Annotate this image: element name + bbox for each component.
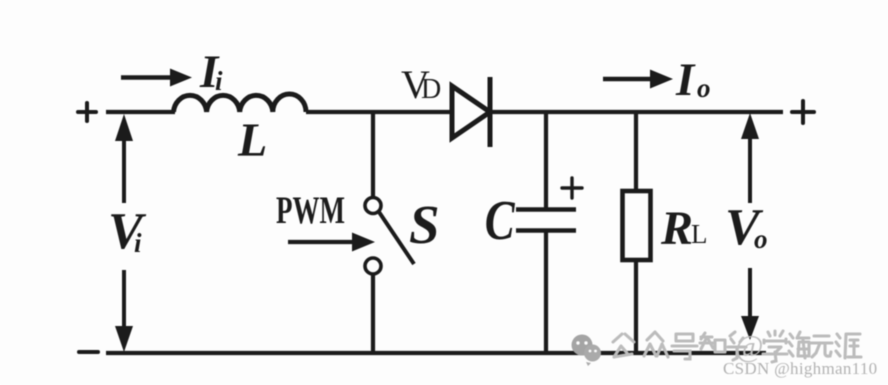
char ya [836, 334, 861, 358]
svg-text:D: D [421, 74, 441, 105]
svg-text:S: S [409, 194, 440, 255]
arrow Vo measurement double-headed [741, 113, 759, 340]
char hao [672, 334, 697, 359]
svg-text:I: I [675, 54, 696, 106]
capacitor C bottom plate [516, 228, 576, 233]
svg-text:o: o [754, 224, 768, 254]
svg-text:CSDN @highman110: CSDN @highman110 [723, 359, 877, 378]
char xue [763, 331, 787, 362]
wire top rail left segment [106, 110, 175, 114]
svg-text:R: R [660, 202, 693, 255]
switch S bottom contact [365, 258, 381, 274]
plus sign left input terminal [78, 103, 96, 121]
svg-text:PWM: PWM [276, 189, 345, 232]
arrow Io current [603, 70, 673, 89]
diode VD triangle [452, 86, 490, 138]
arrow PWM control [288, 233, 375, 252]
char hu [728, 332, 746, 360]
char wu [811, 336, 832, 357]
label Vi [108, 203, 147, 260]
svg-text:i: i [134, 228, 142, 258]
char hai [789, 332, 809, 358]
label Ii [199, 46, 223, 98]
watermark wechat icon [572, 335, 602, 367]
wire bottom rail [106, 351, 766, 355]
svg-text:@: @ [735, 328, 764, 363]
inductor L [174, 94, 307, 112]
char gong [613, 334, 634, 357]
plus sign right output terminal [792, 101, 814, 123]
label VD [401, 62, 441, 107]
capacitor polarity plus [562, 178, 582, 198]
char zhong [644, 332, 668, 357]
svg-text:o: o [697, 73, 711, 103]
arrow Ii current [121, 69, 192, 87]
label RL [660, 202, 708, 255]
diode VD cathode bar [488, 77, 493, 147]
arrow Vi measurement double-headed [115, 114, 133, 352]
svg-text:L: L [691, 219, 708, 249]
capacitor C top plate [516, 207, 576, 212]
wire capacitor branch lower [544, 232, 548, 353]
svg-text:L: L [237, 114, 267, 167]
wire resistor branch lower [634, 260, 638, 353]
resistor RL body [623, 191, 651, 260]
minus sign left bottom terminal [79, 350, 98, 354]
switch S blade [379, 212, 414, 264]
wire switch branch upper [371, 112, 375, 198]
label Io [675, 54, 711, 106]
watermark text gongzhonghao zhihu at xuehaiwuya (drawn strokes) [613, 331, 861, 362]
switch S top contact [365, 198, 381, 214]
wire switch branch lower [371, 274, 375, 353]
label Vo [725, 199, 768, 256]
wire top rail right segment [490, 110, 783, 114]
wire resistor branch upper [634, 112, 638, 191]
wire top rail between inductor and diode [306, 110, 452, 114]
wire capacitor branch upper [544, 112, 548, 208]
svg-text:i: i [215, 66, 223, 96]
char zhi [700, 333, 725, 352]
svg-text:C: C [485, 189, 516, 251]
